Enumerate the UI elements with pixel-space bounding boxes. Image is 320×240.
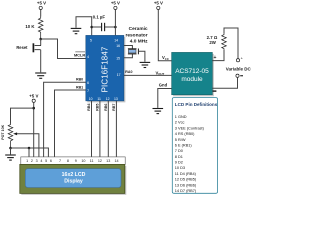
+5V supply symbol (top-left, pull-up) (37, 1, 46, 17)
svg-text:1 GND: 1 GND (175, 115, 187, 119)
wire junction to pot top (11, 108, 34, 123)
svg-text:11: 11 (90, 159, 94, 163)
svg-text:11 D4 (RB4): 11 D4 (RB4) (175, 172, 197, 176)
svg-text:14: 14 (114, 159, 118, 163)
wire junction to MCLR pin 4 (41, 39, 86, 59)
svg-text:5: 5 (90, 38, 92, 42)
svg-text:16: 16 (116, 44, 120, 48)
svg-text:6: 6 (87, 81, 89, 85)
ground (resonator) (140, 62, 151, 67)
svg-text:Variable DC: Variable DC (226, 66, 252, 71)
pushbutton Reset (16, 39, 41, 72)
svg-text:+5 V: +5 V (154, 1, 163, 6)
wiper wire to LCD pin3 (15, 134, 39, 157)
node: gnd bus pot (9, 147, 12, 150)
svg-text:5: 5 (45, 159, 47, 163)
svg-text:Ceramic: Ceramic (129, 26, 148, 32)
svg-text:+5 V: +5 V (111, 1, 120, 6)
svg-text:LCD Pin Definitions: LCD Pin Definitions (175, 102, 218, 107)
svg-text:resonator: resonator (125, 32, 147, 38)
node: gnd bus pin1 (28, 147, 31, 150)
potentiometer POT 10K (1, 124, 39, 158)
svg-text:7: 7 (59, 159, 61, 163)
svg-text:RB1: RB1 (76, 85, 83, 89)
svg-text:POT 10K: POT 10K (1, 124, 5, 139)
svg-text:9 D2: 9 D2 (175, 161, 183, 165)
svg-text:ACS712-05: ACS712-05 (175, 68, 209, 75)
svg-text:4: 4 (40, 159, 42, 163)
wire RB6 pin12 to LCD pin13 (107, 101, 109, 157)
ground (ACS712) (153, 109, 164, 114)
svg-text:Display: Display (64, 178, 83, 184)
svg-text:Gnd: Gnd (159, 83, 168, 88)
svg-text:14: 14 (114, 38, 118, 42)
svg-text:4: 4 (87, 55, 89, 59)
wire OSC1 pin16 to resonator (124, 46, 132, 49)
svg-text:11: 11 (97, 97, 101, 101)
svg-text:RB4: RB4 (87, 103, 91, 111)
svg-text:17: 17 (117, 73, 121, 77)
wire Vss pin5 to ground (76, 17, 92, 36)
svg-text:12: 12 (106, 97, 110, 101)
svg-text:13: 13 (106, 159, 110, 163)
wire OSC2 pin15 to resonator (124, 54, 132, 58)
svg-text:13: 13 (114, 97, 118, 101)
svg-text:6: 6 (50, 159, 52, 163)
svg-text:PIC16F1847: PIC16F1847 (101, 47, 110, 93)
svg-text:10: 10 (89, 97, 93, 101)
svg-text:+5 V: +5 V (29, 93, 38, 98)
node: pot junction (32, 107, 35, 110)
svg-text:VCC: VCC (162, 55, 169, 61)
svg-text:15: 15 (116, 57, 120, 61)
svg-text:RA0: RA0 (125, 70, 132, 74)
resistor R1 10K (MCLR pull-up) (25, 17, 43, 40)
resistor R2 2.7 ohm 2W (207, 33, 227, 50)
svg-text:VOUT: VOUT (156, 70, 165, 76)
ground (below Reset) (35, 73, 46, 78)
svg-text:module: module (181, 76, 203, 83)
svg-text:10: 10 (81, 159, 85, 163)
LCD pin definitions table (172, 98, 217, 194)
svg-text:8: 8 (67, 159, 69, 163)
svg-text:MCLR: MCLR (74, 52, 85, 57)
svg-text:RB0: RB0 (76, 77, 83, 81)
capacitor C1 0.1 uF (92, 14, 116, 31)
wire RB4 pin10 to LCD pin11 (91, 101, 93, 157)
svg-text:RB7: RB7 (112, 104, 116, 111)
ground (top, Vss) (71, 28, 82, 33)
svg-text:4.0 MHz: 4.0 MHz (130, 38, 148, 44)
wire RB0 pin6 to LCD RS (44, 82, 86, 157)
gnd bus wire (11, 148, 49, 157)
svg-text:14 D7 (RB7): 14 D7 (RB7) (175, 189, 197, 193)
svg-text:3: 3 (36, 159, 38, 163)
wire Gnd pin to ground (158, 89, 172, 108)
svg-text:7: 7 (87, 89, 89, 93)
wire RB5 pin11 to LCD pin12 (99, 101, 101, 157)
+5V supply symbol (LCD Vcc) (29, 93, 38, 157)
svg-text:3 VEE (Contrast): 3 VEE (Contrast) (175, 126, 205, 130)
wire + pin to resistor (212, 50, 224, 61)
svg-text:10 K: 10 K (25, 24, 35, 29)
node: cap left junction (90, 26, 93, 29)
+ terminal (Variable DC) (236, 55, 243, 62)
+5V supply symbol (above Vdd pin 14) (111, 1, 120, 36)
IC U1 PIC16F1847 (86, 35, 126, 102)
svg-text:RB6: RB6 (104, 104, 108, 111)
LCD connector strip (21, 157, 125, 165)
svg-text:16x2 LCD: 16x2 LCD (62, 172, 86, 178)
svg-text:+5 V: +5 V (37, 1, 46, 6)
wire pin1 stub (28, 148, 30, 157)
svg-text:RB5: RB5 (95, 104, 99, 111)
svg-text:0.1 µF: 0.1 µF (93, 14, 106, 19)
svg-text:12: 12 (98, 159, 102, 163)
node: cap right junction (114, 26, 117, 29)
svg-text:7 D0: 7 D0 (175, 149, 183, 153)
svg-text:13 D6 (RB6): 13 D6 (RB6) (175, 183, 197, 187)
ceramic resonator X1 (125, 26, 148, 54)
- terminal (Variable DC) (236, 74, 243, 77)
svg-text:8 D1: 8 D1 (175, 155, 183, 159)
wire +5V to Vcc pin (158, 10, 171, 61)
wire resonator to ground (138, 51, 145, 62)
wire resistor to + terminal (224, 28, 238, 59)
module U2 ACS712-05 (172, 52, 214, 96)
svg-text:2 Vcc: 2 Vcc (175, 121, 185, 125)
svg-text:6 E (RB1): 6 E (RB1) (175, 144, 193, 148)
svg-text:12 D5 (RB5): 12 D5 (RB5) (175, 178, 197, 182)
svg-text:2: 2 (31, 159, 33, 163)
MCLR pin label (74, 52, 85, 57)
svg-text:5 R/W: 5 R/W (175, 138, 186, 142)
pin - label (213, 90, 217, 91)
wire - terminal to module - pin (212, 77, 237, 88)
svg-text:Reset: Reset (16, 45, 28, 50)
svg-text:4 RS (RB0): 4 RS (RB0) (175, 132, 195, 136)
svg-text:9: 9 (75, 159, 77, 163)
+5V supply symbol (ACS712 Vcc) (154, 1, 163, 10)
ground (LCD) (5, 148, 16, 160)
LCD module 16x2 display (20, 164, 127, 195)
node: MCLR junction (39, 38, 42, 41)
svg-text:10 D3: 10 D3 (175, 166, 185, 170)
wire RB7 pin13 to LCD pin14 (115, 101, 117, 157)
svg-text:1: 1 (26, 159, 28, 163)
wire RA0 pin17 to ACS712 Vout (124, 74, 172, 76)
wire Vdd (114, 10, 116, 36)
wire RB1 pin7 to LCD E (55, 90, 86, 157)
svg-text:2W: 2W (209, 40, 216, 45)
